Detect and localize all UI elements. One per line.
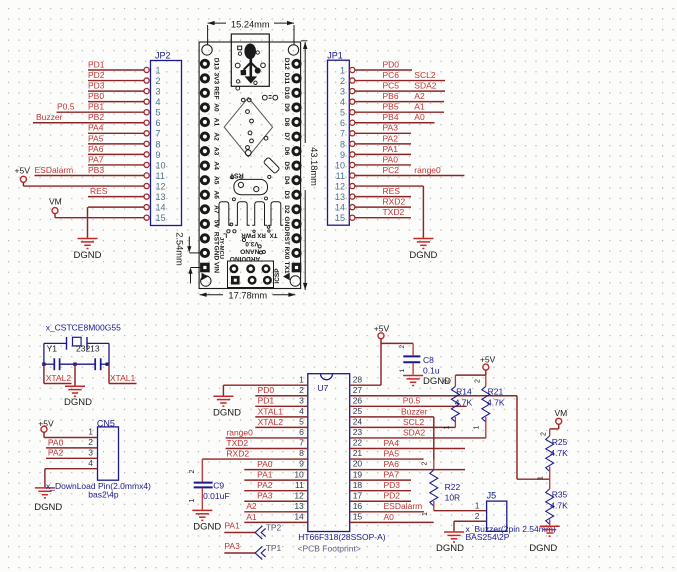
svg-text:U7: U7: [318, 383, 329, 393]
svg-text:D7: D7: [283, 132, 290, 141]
svg-text:RST: RST: [283, 232, 290, 245]
svg-text:8: 8: [299, 448, 304, 458]
svg-text:DGND: DGND: [64, 397, 92, 408]
svg-text:2: 2: [156, 76, 161, 86]
svg-text:PD0: PD0: [383, 59, 400, 69]
svg-text:2: 2: [540, 432, 547, 436]
svg-text:A1: A1: [414, 102, 425, 112]
svg-text:10: 10: [294, 469, 304, 479]
svg-text:15.24mm: 15.24mm: [231, 19, 270, 29]
svg-text:PA0: PA0: [257, 459, 273, 469]
svg-text:PA1: PA1: [224, 521, 240, 531]
svg-text:24: 24: [353, 417, 363, 427]
svg-text:D9: D9: [283, 103, 290, 112]
svg-text:1: 1: [399, 368, 406, 372]
svg-text:6: 6: [156, 118, 161, 128]
svg-text:+5V: +5V: [480, 354, 496, 364]
svg-text:DGND: DGND: [74, 250, 102, 261]
svg-text:RST: RST: [229, 172, 244, 179]
svg-text:JY-MCU: JY-MCU: [218, 237, 224, 259]
svg-text:18: 18: [353, 480, 363, 490]
svg-text:R14: R14: [456, 386, 472, 396]
svg-text:4: 4: [156, 97, 161, 107]
svg-text:4: 4: [340, 97, 345, 107]
svg-text:Buzzer: Buzzer: [36, 112, 63, 122]
svg-text:9: 9: [340, 150, 345, 160]
svg-text:1: 1: [475, 501, 480, 511]
svg-text:1: 1: [340, 65, 345, 75]
svg-text:RX0: RX0: [283, 247, 290, 260]
svg-text:D6: D6: [283, 147, 290, 156]
svg-text:PB2: PB2: [88, 112, 104, 122]
svg-text:BAS254\2P: BAS254\2P: [466, 532, 510, 542]
svg-text:11: 11: [336, 171, 345, 181]
svg-text:7: 7: [340, 129, 345, 139]
svg-text:TX1: TX1: [283, 261, 290, 273]
svg-text:1: 1: [422, 512, 429, 516]
svg-text:range0: range0: [226, 427, 253, 437]
svg-text:14: 14: [294, 511, 304, 521]
svg-text:PC5: PC5: [383, 81, 400, 91]
svg-text:10: 10: [335, 160, 345, 170]
svg-text:PB0: PB0: [88, 91, 104, 101]
svg-text:2: 2: [475, 379, 482, 383]
svg-text:PD1: PD1: [258, 396, 275, 406]
svg-text:A7: A7: [212, 205, 219, 214]
svg-text:11: 11: [156, 171, 165, 181]
svg-text:D13: D13: [212, 58, 219, 70]
svg-text:VM: VM: [49, 196, 62, 206]
svg-text:PA3: PA3: [383, 123, 399, 133]
svg-text:2: 2: [189, 469, 196, 473]
svg-text:13: 13: [156, 192, 166, 202]
svg-text:V3.0: V3.0: [245, 240, 259, 247]
svg-text:13: 13: [335, 192, 345, 202]
svg-text:PA1: PA1: [257, 470, 273, 480]
svg-text:PA2: PA2: [48, 448, 64, 458]
svg-text:2: 2: [340, 76, 345, 86]
svg-text:R22: R22: [445, 482, 461, 492]
svg-text:16: 16: [353, 501, 363, 511]
svg-text:13: 13: [294, 501, 304, 511]
svg-text:25: 25: [353, 406, 363, 416]
svg-text:DGND: DGND: [213, 407, 241, 418]
svg-text:XTAL2: XTAL2: [46, 373, 72, 383]
svg-text:D8: D8: [283, 118, 290, 127]
svg-text:4: 4: [88, 458, 93, 468]
svg-text:C9: C9: [213, 481, 224, 491]
svg-text:4.7K: 4.7K: [487, 397, 505, 407]
svg-text:<PCB Footprint>: <PCB Footprint>: [298, 543, 361, 553]
svg-text:3: 3: [88, 448, 93, 458]
svg-text:10R: 10R: [445, 493, 461, 503]
svg-text:8: 8: [156, 139, 161, 149]
svg-text:PA1: PA1: [383, 144, 399, 154]
svg-text:VIN: VIN: [212, 262, 219, 273]
svg-text:2: 2: [443, 379, 450, 383]
svg-text:PA7: PA7: [384, 470, 400, 480]
svg-text:PB4: PB4: [383, 112, 399, 122]
svg-text:43.18mm: 43.18mm: [309, 147, 319, 186]
svg-text:+5V: +5V: [374, 323, 390, 333]
svg-text:26: 26: [353, 395, 363, 405]
svg-text:R35: R35: [552, 489, 568, 499]
svg-text:D10: D10: [283, 87, 290, 99]
svg-text:REF: REF: [212, 86, 219, 99]
svg-text:RES: RES: [90, 186, 108, 196]
svg-text:SCL2: SCL2: [403, 417, 425, 427]
svg-text:PA5: PA5: [384, 448, 400, 458]
svg-text:VM: VM: [555, 408, 568, 418]
svg-text:19: 19: [353, 469, 363, 479]
svg-text:PA2: PA2: [257, 480, 273, 490]
svg-text:6: 6: [340, 118, 345, 128]
svg-text:14: 14: [335, 203, 345, 213]
svg-text:2: 2: [421, 461, 428, 465]
svg-text:PA0: PA0: [48, 437, 64, 447]
svg-text:0.1u: 0.1u: [423, 366, 440, 376]
svg-text:2: 2: [399, 345, 406, 349]
svg-text:A0: A0: [384, 512, 395, 522]
svg-text:NANO: NANO: [240, 248, 259, 255]
svg-text:x_CSTCE8M00G55: x_CSTCE8M00G55: [46, 323, 121, 333]
svg-text:TXD2: TXD2: [226, 438, 248, 448]
svg-text:7: 7: [156, 129, 161, 139]
svg-text:12: 12: [294, 490, 304, 500]
svg-text:ICSP: ICSP: [274, 268, 281, 284]
svg-text:XTAL1: XTAL1: [258, 406, 284, 416]
svg-text:20: 20: [353, 459, 363, 469]
svg-text:SDA2: SDA2: [403, 427, 425, 437]
svg-text:PA4: PA4: [88, 123, 104, 133]
svg-text:HT66F318(28SSOP-A): HT66F318(28SSOP-A): [298, 532, 386, 542]
svg-text:15: 15: [353, 511, 363, 521]
svg-text:15: 15: [156, 213, 166, 223]
svg-text:A5: A5: [212, 176, 219, 185]
svg-text:4.7K: 4.7K: [550, 500, 568, 510]
svg-text:TP1: TP1: [266, 543, 282, 553]
svg-text:RX: RX: [256, 231, 265, 238]
svg-text:2: 2: [299, 385, 304, 395]
svg-text:15: 15: [335, 213, 345, 223]
svg-text:2.54mm: 2.54mm: [175, 232, 185, 266]
svg-text:PD2: PD2: [384, 491, 401, 501]
svg-text:A2: A2: [246, 501, 257, 511]
svg-text:TX: TX: [269, 231, 278, 238]
svg-text:1: 1: [299, 374, 304, 384]
svg-text:12: 12: [335, 181, 345, 191]
svg-text:PA3: PA3: [224, 541, 240, 551]
svg-text:PD0: PD0: [258, 385, 275, 395]
svg-text:PA4: PA4: [384, 438, 400, 448]
svg-text:17.78mm: 17.78mm: [228, 291, 267, 301]
svg-text:17: 17: [353, 490, 363, 500]
svg-text:range0: range0: [414, 165, 441, 175]
svg-text:4: 4: [299, 406, 304, 416]
svg-text:D2: D2: [283, 205, 290, 214]
svg-text:0.01uF: 0.01uF: [203, 491, 229, 501]
svg-text:R21: R21: [488, 386, 504, 396]
svg-text:RXD2: RXD2: [383, 197, 406, 207]
svg-text:PA0: PA0: [383, 154, 399, 164]
svg-text:PWR: PWR: [241, 231, 256, 238]
svg-text:4.7K: 4.7K: [455, 397, 473, 407]
svg-text:RES: RES: [383, 186, 401, 196]
svg-text:A1: A1: [212, 118, 219, 127]
svg-text:PA7: PA7: [88, 154, 104, 164]
svg-text:TXD2: TXD2: [383, 207, 405, 217]
svg-text:SDA2: SDA2: [414, 81, 436, 91]
svg-text:A3: A3: [212, 147, 219, 156]
svg-text:7: 7: [299, 438, 304, 448]
svg-text:D5: D5: [283, 161, 290, 170]
svg-text:5: 5: [299, 417, 304, 427]
svg-text:GND: GND: [283, 217, 290, 232]
svg-text:JP1: JP1: [327, 51, 343, 61]
svg-text:9: 9: [156, 150, 161, 160]
svg-text:A0: A0: [212, 103, 219, 112]
svg-text:PA2: PA2: [383, 133, 399, 143]
svg-text:2: 2: [475, 511, 480, 521]
svg-text:SCL2: SCL2: [414, 70, 436, 80]
svg-text:PD1: PD1: [88, 59, 105, 69]
svg-text:4.7K: 4.7K: [550, 448, 568, 458]
svg-text:A1: A1: [246, 512, 257, 522]
svg-text:RXD2: RXD2: [226, 448, 249, 458]
svg-text:D12: D12: [283, 58, 290, 70]
svg-text:6: 6: [299, 427, 304, 437]
svg-text:ESDalarm: ESDalarm: [35, 165, 74, 175]
svg-text:JP2: JP2: [155, 51, 171, 61]
svg-text:3: 3: [156, 87, 161, 97]
svg-text:PD3: PD3: [88, 81, 105, 91]
svg-text:3V3: 3V3: [212, 72, 219, 84]
svg-text:5: 5: [340, 108, 345, 118]
svg-text:PB5: PB5: [383, 102, 399, 112]
svg-text:C8: C8: [423, 355, 434, 365]
svg-text:Buzzer: Buzzer: [401, 406, 428, 416]
svg-text:J5: J5: [487, 491, 497, 501]
svg-text:PB1: PB1: [88, 102, 104, 112]
svg-text:PB6: PB6: [383, 91, 399, 101]
svg-text:A2: A2: [414, 91, 425, 101]
svg-text:Y1: Y1: [47, 344, 58, 354]
svg-text:5: 5: [156, 108, 161, 118]
svg-text:3: 3: [340, 87, 345, 97]
svg-text:3: 3: [299, 395, 304, 405]
svg-text:P0.5: P0.5: [57, 102, 75, 112]
svg-text:1: 1: [474, 425, 481, 429]
svg-text:PA3: PA3: [257, 491, 273, 501]
svg-text:21: 21: [353, 448, 363, 458]
svg-text:5V: 5V: [212, 220, 219, 229]
svg-text:PD3: PD3: [384, 480, 401, 490]
svg-text:14: 14: [156, 203, 166, 213]
svg-text:A4: A4: [212, 161, 219, 170]
svg-text:1: 1: [538, 476, 545, 480]
svg-text:23213: 23213: [76, 344, 100, 354]
svg-text:11: 11: [295, 480, 304, 490]
svg-text:1: 1: [189, 498, 196, 502]
svg-text:PA6: PA6: [88, 144, 104, 154]
svg-text:PB3: PB3: [88, 165, 104, 175]
svg-text:DGND: DGND: [436, 543, 464, 554]
svg-text:23: 23: [353, 427, 363, 437]
svg-text:PC2: PC2: [383, 165, 400, 175]
svg-text:DGND: DGND: [34, 502, 62, 513]
svg-text:28: 28: [353, 374, 363, 384]
svg-text:12: 12: [156, 181, 166, 191]
svg-text:A6: A6: [212, 191, 219, 200]
svg-text:R25: R25: [552, 437, 568, 447]
svg-text:D3: D3: [283, 191, 290, 200]
svg-text:1: 1: [444, 425, 451, 429]
svg-text:10: 10: [156, 160, 166, 170]
svg-text:2: 2: [88, 437, 93, 447]
svg-text:ESDalarm: ESDalarm: [384, 501, 423, 511]
svg-text:bas2\4p: bas2\4p: [88, 490, 119, 500]
svg-text:PA6: PA6: [384, 459, 400, 469]
svg-text:8: 8: [340, 139, 345, 149]
svg-text:A0: A0: [414, 112, 425, 122]
svg-text:1: 1: [88, 427, 93, 437]
svg-text:DGND: DGND: [193, 521, 221, 532]
svg-text:1: 1: [156, 65, 161, 75]
svg-text:TP2: TP2: [266, 523, 282, 533]
svg-text:22: 22: [353, 438, 363, 448]
svg-text:XTAL1: XTAL1: [110, 373, 136, 383]
svg-text:PD2: PD2: [88, 70, 105, 80]
svg-text:27: 27: [353, 385, 363, 395]
svg-text:+5V: +5V: [15, 166, 31, 176]
svg-text:D4: D4: [283, 176, 290, 185]
svg-text:PC6: PC6: [383, 70, 400, 80]
svg-text:9: 9: [299, 459, 304, 469]
svg-text:DGND: DGND: [529, 543, 557, 554]
svg-text:PA5: PA5: [88, 133, 104, 143]
svg-text:P0.5: P0.5: [403, 396, 421, 406]
svg-text:D11: D11: [283, 72, 290, 84]
svg-text:XTAL2: XTAL2: [258, 417, 284, 427]
svg-text:DGND: DGND: [409, 250, 437, 261]
svg-text:A2: A2: [212, 132, 219, 141]
